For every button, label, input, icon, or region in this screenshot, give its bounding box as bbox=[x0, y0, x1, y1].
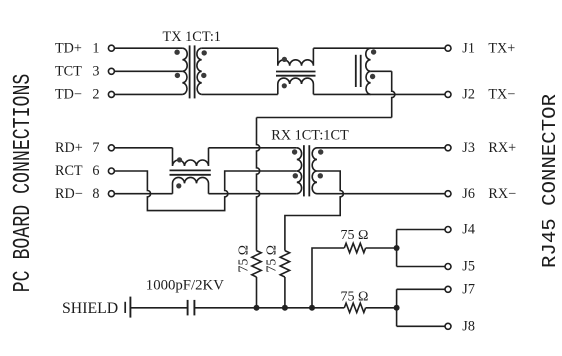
svg-text:RJ45 CONNECTOR: RJ45 CONNECTOR bbox=[539, 94, 561, 268]
resistor R2 75 ohm (RX termination) bbox=[280, 251, 289, 277]
wire RD- to choke L2 bbox=[114, 193, 172, 195]
choke L2 top winding bbox=[173, 148, 209, 166]
svg-text:1000pF/2KV: 1000pF/2KV bbox=[146, 277, 224, 293]
svg-text:RD+: RD+ bbox=[55, 140, 83, 156]
wire T3 center tap bbox=[371, 70, 392, 72]
T3 phasing dots bbox=[371, 49, 376, 54]
wire shield to capacitor C1 bbox=[130, 307, 187, 309]
svg-text:75 Ω: 75 Ω bbox=[235, 245, 250, 273]
choke L2 core bbox=[170, 169, 211, 171]
wire choke L1 top to J1 bbox=[313, 47, 445, 49]
resistor R1 75 ohm (TX termination) bbox=[252, 251, 261, 277]
svg-text:J7: J7 bbox=[462, 282, 475, 298]
transformer T1 TX primary winding bbox=[182, 48, 187, 94]
svg-text:1: 1 bbox=[92, 40, 99, 56]
svg-text:RCT: RCT bbox=[55, 163, 83, 179]
svg-text:J4: J4 bbox=[462, 222, 475, 238]
svg-text:RD−: RD− bbox=[55, 186, 83, 202]
wire resistor R4 to bracket bbox=[366, 307, 397, 309]
wire choke L2 bottom to T2 bbox=[209, 193, 297, 195]
svg-text:J6: J6 bbox=[462, 186, 475, 202]
transformer T2 core bbox=[303, 145, 305, 196]
wire RD+ to choke L2 bbox=[114, 147, 172, 149]
autotransformer T3 core bbox=[355, 55, 357, 87]
transformer T1 core bbox=[189, 45, 191, 98]
svg-text:TX−: TX− bbox=[488, 87, 515, 103]
wire choke L1 bottom to J2 bbox=[313, 93, 445, 95]
svg-text:TX+: TX+ bbox=[488, 40, 515, 56]
svg-text:TX 1CT:1: TX 1CT:1 bbox=[163, 29, 221, 45]
wire R1 to shield rail bbox=[256, 277, 258, 308]
wire J4/J5 bracket bbox=[396, 230, 398, 267]
T2 phasing dots bbox=[292, 149, 297, 154]
node RD- pin 8 bbox=[108, 191, 114, 197]
svg-text:2: 2 bbox=[92, 87, 99, 103]
node J6 bbox=[445, 191, 451, 197]
svg-text:RX 1CT:1CT: RX 1CT:1CT bbox=[271, 127, 349, 143]
svg-text:75 Ω: 75 Ω bbox=[341, 228, 369, 243]
wire T1 secondary bottom to choke L1 bbox=[202, 93, 278, 95]
svg-text:TD−: TD− bbox=[55, 87, 82, 103]
svg-text:3: 3 bbox=[92, 64, 99, 80]
svg-text:7: 7 bbox=[92, 140, 99, 156]
wire branch up from rail to R3 bbox=[312, 248, 344, 308]
resistor R4 75 ohm (on rail to J7/J8) bbox=[344, 303, 365, 312]
svg-text:6: 6 bbox=[92, 163, 99, 179]
svg-text:J2: J2 bbox=[462, 87, 475, 103]
svg-text:75 Ω: 75 Ω bbox=[264, 245, 279, 273]
L1 phasing dots bbox=[282, 57, 287, 62]
wire T3 tap vertical with hop over J2 wire bbox=[392, 71, 395, 117]
choke L1 core bbox=[276, 71, 316, 73]
wire T2 secondary center tap: right, down with hop, left, down bbox=[285, 171, 344, 251]
svg-text:SHIELD: SHIELD bbox=[62, 300, 118, 317]
svg-text:RX+: RX+ bbox=[488, 140, 516, 156]
wire R3 to J4/J5 bracket bbox=[366, 247, 397, 249]
svg-text:J8: J8 bbox=[462, 319, 475, 335]
node TD+ pin 1 bbox=[108, 45, 114, 51]
wire T2 secondary top to J3 bbox=[317, 147, 445, 149]
wire TD- to T1 primary bbox=[114, 93, 182, 95]
L2 phasing dots bbox=[177, 157, 182, 162]
node TD- pin 2 bbox=[108, 91, 114, 97]
wire J7/J8 bracket bbox=[396, 289, 398, 326]
svg-text:J5: J5 bbox=[462, 259, 475, 275]
wire TX termination vertical with hops bbox=[257, 118, 260, 251]
node J8 bbox=[445, 323, 451, 329]
svg-text:J3: J3 bbox=[462, 140, 475, 156]
node RCT pin 6 bbox=[108, 168, 114, 174]
svg-text:TCT: TCT bbox=[55, 64, 82, 80]
junction dot J7/J8 bbox=[394, 305, 400, 311]
wire T3 tap horizontal across bbox=[257, 117, 392, 119]
choke L1 top winding bbox=[278, 48, 314, 65]
junction dot J4/J5 bbox=[394, 245, 400, 251]
junction dots on rail bbox=[254, 305, 260, 311]
wire RCT bypass: right, down, right, up to T2 center tap bbox=[114, 171, 296, 211]
node J7 bbox=[445, 286, 451, 292]
node J2 bbox=[445, 91, 451, 97]
wire capacitor to rail junction bbox=[194, 307, 344, 309]
transformer T2 RX primary winding bbox=[297, 148, 302, 194]
capacitor C1 1000pF/2KV plates bbox=[187, 300, 189, 316]
node J4 bbox=[445, 227, 451, 233]
svg-text:TD+: TD+ bbox=[55, 40, 82, 56]
node J5 bbox=[445, 264, 451, 270]
svg-text:PC BOARD CONNECTIONS: PC BOARD CONNECTIONS bbox=[10, 74, 37, 293]
transformer T2 RX secondary winding bbox=[312, 148, 317, 194]
node RD+ pin 7 bbox=[108, 145, 114, 151]
resistor R3 75 ohm (to J4/J5) bbox=[344, 243, 365, 252]
wire TD+ to T1 primary bbox=[114, 47, 182, 49]
SHIELD terminal marks bbox=[124, 302, 126, 313]
node J3 bbox=[445, 145, 451, 151]
node TCT pin 3 bbox=[108, 68, 114, 74]
wire T1 secondary top to choke L1 bbox=[202, 47, 278, 49]
wire T2 secondary bottom to J6 bbox=[317, 193, 445, 195]
wire TCT to T1 primary center tap bbox=[114, 70, 182, 72]
svg-text:75 Ω: 75 Ω bbox=[341, 290, 369, 305]
T1 phasing dots bbox=[174, 50, 179, 55]
svg-text:J1: J1 bbox=[462, 40, 475, 56]
choke L1 bottom winding bbox=[278, 78, 314, 94]
wire choke L2 top to T2 bbox=[209, 147, 297, 149]
node J1 bbox=[445, 45, 451, 51]
wire R2 to shield rail bbox=[284, 277, 286, 308]
choke L2 bottom winding bbox=[173, 177, 209, 193]
svg-text:RX−: RX− bbox=[488, 186, 516, 202]
svg-text:8: 8 bbox=[92, 186, 99, 202]
autotransformer T3 winding bbox=[366, 48, 371, 94]
transformer T1 TX secondary winding bbox=[197, 48, 202, 94]
